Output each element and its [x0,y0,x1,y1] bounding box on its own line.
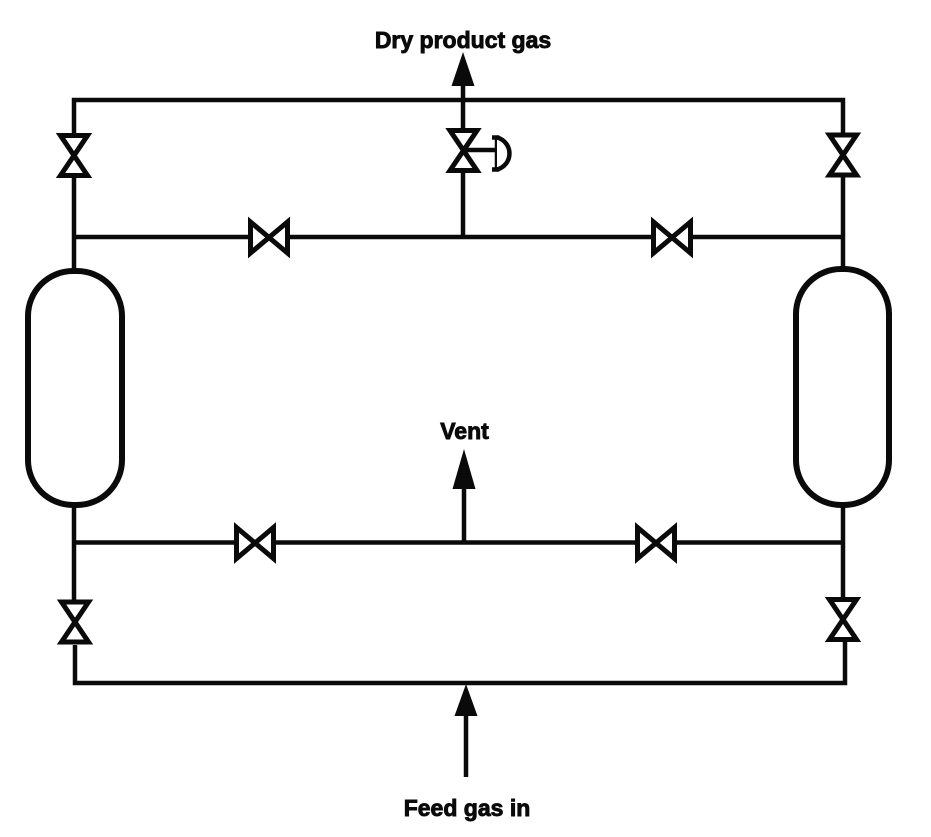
vessel left adsorber [28,271,122,505]
wire bottom header [75,642,845,683]
wire upper crossover right [693,235,845,240]
wire upper crossover left [72,235,248,240]
arrow feed gas in [455,684,478,777]
wire product column upper [461,100,466,129]
svg-text:Feed gas in: Feed gas in [404,795,531,821]
wire top header [74,100,843,135]
valve V2 top-right [830,135,857,175]
wire product column lower [461,172,466,239]
valve V5 bottom-left [62,602,89,642]
valve V7 upper crossover left [251,222,288,253]
wire lower crossover left [72,540,234,545]
wire upper crossover middle [290,235,651,240]
svg-text:Vent: Vent [440,418,489,444]
valve V6 bottom-right [830,600,857,640]
wire lower crossover middle [276,540,635,545]
valve V1 top-left [61,136,88,176]
valve V10 lower crossover right [638,528,675,559]
valve V8 upper crossover right [654,222,691,253]
wire lower crossover right [677,540,845,545]
valve V3 pressure control [450,131,509,171]
arrow dry product gas out [452,52,475,101]
wire right riser upper [841,177,846,271]
wire right downcomer [841,504,846,598]
vessel right adsorber [796,269,889,505]
svg-text:Dry product gas: Dry product gas [375,27,551,53]
wire left riser upper [72,178,77,273]
wire left downcomer [72,504,77,600]
arrow vent out [453,449,476,544]
valve V9 lower crossover left [237,528,274,559]
